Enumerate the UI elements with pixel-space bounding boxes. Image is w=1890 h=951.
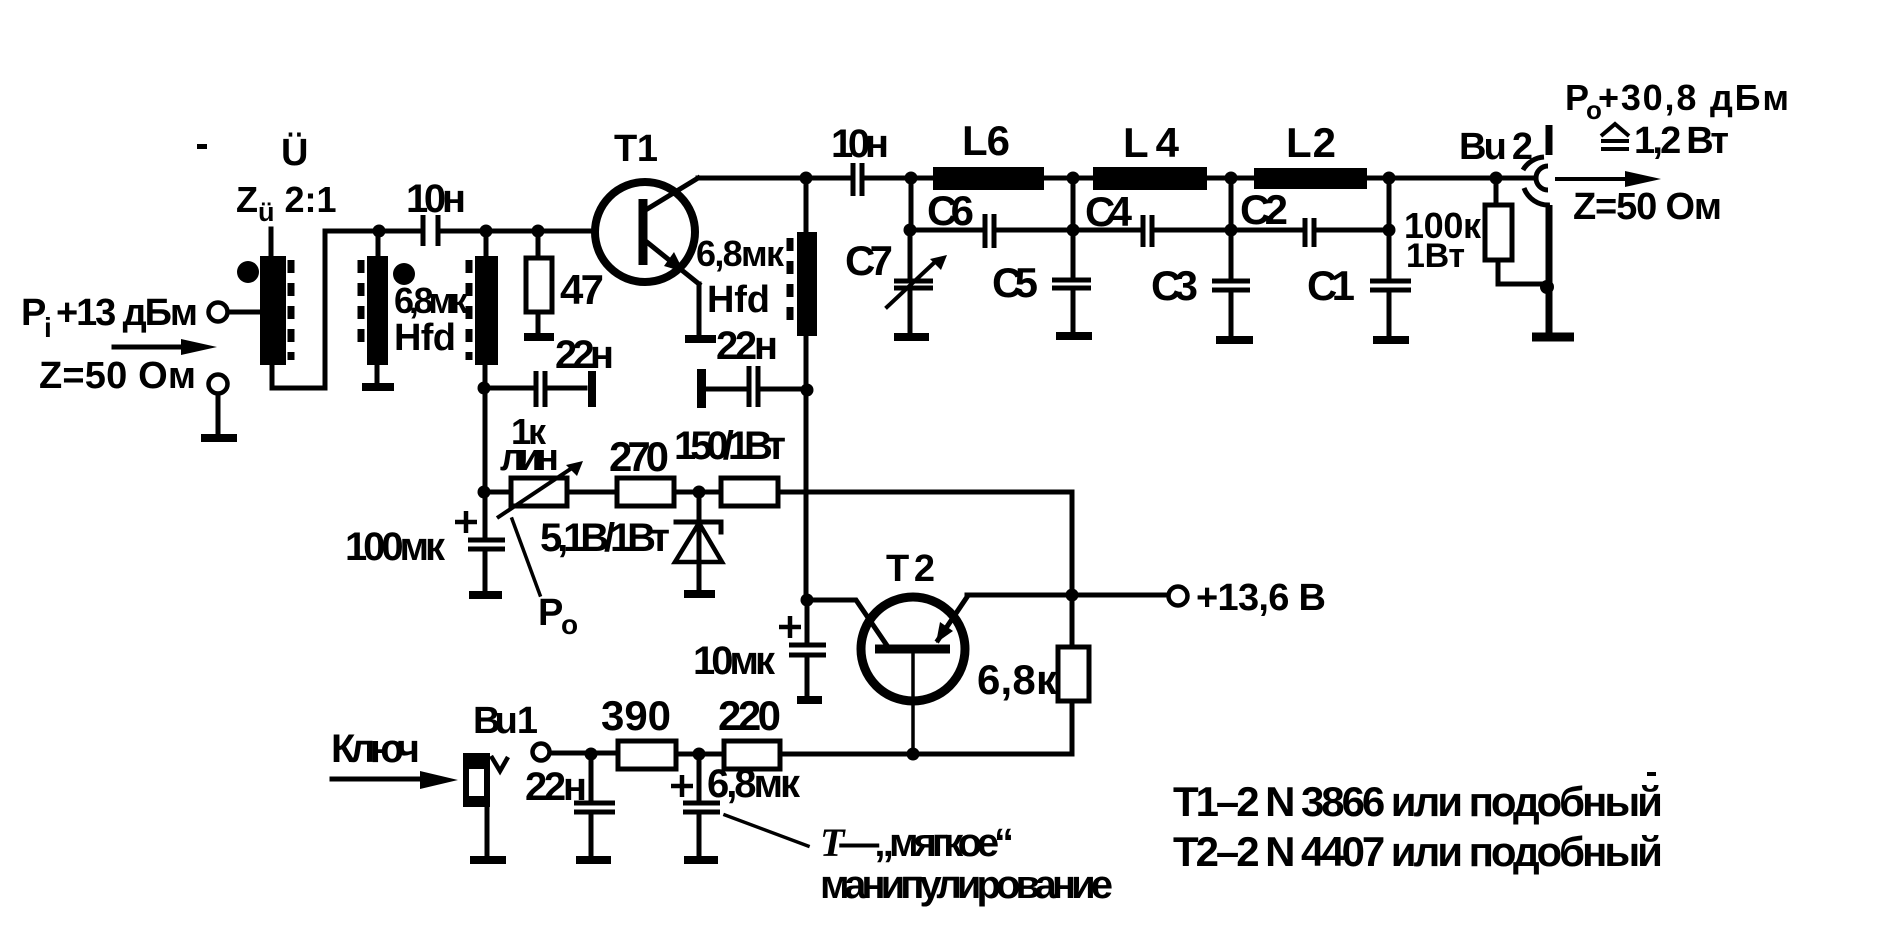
svg-text:220: 220 bbox=[718, 692, 781, 739]
svg-text:C6: C6 bbox=[927, 187, 974, 234]
svg-text:Z=50 Ом: Z=50 Ом bbox=[1573, 186, 1722, 228]
svg-text:Т1–2 N 3866 или подобный: Т1–2 N 3866 или подобный bbox=[1173, 778, 1663, 825]
svg-text:47: 47 bbox=[560, 266, 604, 313]
svg-text:100мк: 100мк bbox=[345, 525, 446, 569]
svg-text:L2: L2 bbox=[1286, 119, 1336, 166]
svg-text:390: 390 bbox=[601, 692, 671, 739]
svg-text:C2: C2 bbox=[1240, 186, 1288, 233]
svg-text:10н: 10н bbox=[831, 122, 889, 166]
svg-text:P: P bbox=[21, 292, 46, 334]
svg-text:22н: 22н bbox=[525, 765, 587, 809]
svg-text:Вu 2: Вu 2 bbox=[1459, 126, 1533, 168]
svg-text:C5: C5 bbox=[992, 259, 1038, 306]
svg-text:270: 270 bbox=[609, 433, 669, 480]
svg-text:+13,6 В: +13,6 В bbox=[1196, 577, 1326, 619]
svg-text:Z=50 Ом: Z=50 Ом bbox=[39, 355, 196, 397]
svg-text:Zü2:1: Zü2:1 bbox=[236, 179, 337, 227]
svg-text:10мк: 10мк bbox=[693, 639, 776, 683]
svg-text:1Вт: 1Вт bbox=[1406, 237, 1465, 275]
svg-text:1,2 Вт: 1,2 Вт bbox=[1634, 120, 1729, 162]
svg-text:+13 дБм: +13 дБм bbox=[56, 292, 198, 334]
svg-text:C4: C4 bbox=[1085, 188, 1133, 235]
svg-text:6,8к: 6,8к bbox=[977, 656, 1058, 703]
svg-text:T1: T1 bbox=[614, 128, 658, 170]
svg-text:o: o bbox=[561, 609, 578, 640]
svg-text:+30,8 дБм: +30,8 дБм bbox=[1598, 77, 1789, 118]
svg-text:C1: C1 bbox=[1307, 262, 1355, 309]
svg-text:6,8мк: 6,8мк bbox=[707, 762, 801, 806]
svg-text:P: P bbox=[538, 592, 563, 634]
svg-text:C7: C7 bbox=[845, 237, 893, 284]
svg-text:манипулирование: манипулирование bbox=[820, 863, 1113, 907]
svg-text:150/1Вт: 150/1Вт bbox=[674, 424, 786, 468]
svg-text:6,8мк: 6,8мк bbox=[696, 233, 785, 274]
svg-text:лин: лин bbox=[500, 437, 559, 479]
svg-text:C3: C3 bbox=[1151, 262, 1198, 309]
svg-text:Ключ: Ключ bbox=[331, 727, 420, 771]
svg-text:Т—„мягкое“: Т—„мягкое“ bbox=[820, 820, 1014, 865]
svg-text:Т2–2 N 4407 или подобный: Т2–2 N 4407 или подобный bbox=[1173, 828, 1663, 875]
svg-text:5,1В/1Вт: 5,1В/1Вт bbox=[540, 516, 670, 560]
svg-text:Ü: Ü bbox=[281, 131, 308, 174]
svg-text:Hfd: Hfd bbox=[394, 317, 456, 359]
svg-text:6,8мк: 6,8мк bbox=[394, 280, 469, 321]
svg-text:22н: 22н bbox=[555, 333, 614, 377]
svg-text:10н: 10н bbox=[406, 177, 466, 221]
svg-text:22н: 22н bbox=[716, 324, 778, 368]
svg-text:Hfd: Hfd bbox=[707, 279, 770, 321]
svg-text:Вu 1: Вu 1 bbox=[473, 700, 538, 742]
svg-text:L6: L6 bbox=[962, 117, 1010, 164]
svg-text:i: i bbox=[44, 312, 52, 343]
